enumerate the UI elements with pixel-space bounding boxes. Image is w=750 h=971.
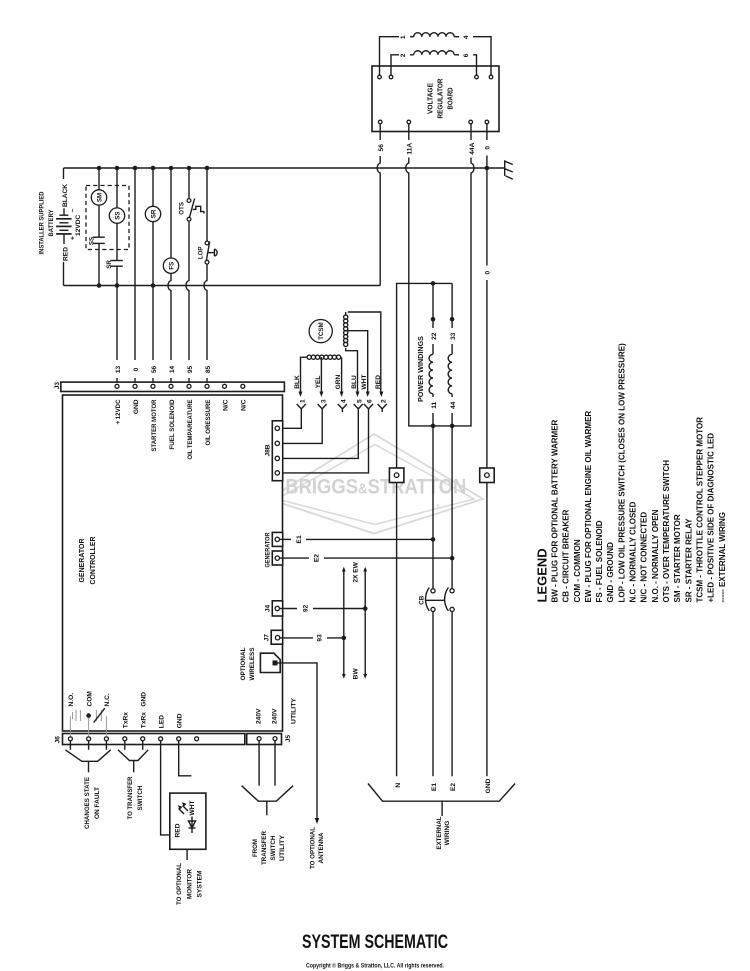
- svg-text:+: +: [69, 236, 76, 240]
- svg-text:OTS - OVER TEMPERATURE SWITCH: OTS - OVER TEMPERATURE SWITCH: [662, 460, 671, 603]
- svg-text:RED: RED: [175, 823, 182, 837]
- wire GND (x=135): [134, 168, 136, 360]
- J8B connector: [272, 421, 282, 481]
- TCSM throttle control stepper motor circle: [309, 320, 332, 343]
- svg-text:BW - PLUG FOR OPTIONAL BATTERY: BW - PLUG FOR OPTIONAL BATTERY WARMER: [551, 419, 560, 602]
- wire OTS (x=189): [188, 168, 190, 199]
- junction dots on top bus: [97, 166, 102, 171]
- LED symbol: [179, 806, 196, 834]
- svg-text:UTILITY: UTILITY: [279, 834, 286, 861]
- svg-text:BLU: BLU: [351, 375, 358, 389]
- svg-text:TRANSFER: TRANSFER: [261, 831, 268, 865]
- svg-text:56: 56: [378, 144, 385, 152]
- svg-text:EXTERNAL: EXTERNAL: [436, 817, 443, 850]
- E1 wire: [280, 538, 292, 540]
- svg-text:WHT: WHT: [189, 800, 196, 815]
- svg-text:Copyright © Briggs & Stratton,: Copyright © Briggs & Stratton, LLC. All …: [306, 962, 444, 970]
- svg-text:240V: 240V: [256, 708, 263, 724]
- battery bracket top: [63, 168, 65, 179]
- svg-text:BW: BW: [353, 668, 360, 680]
- svg-text:RED: RED: [62, 247, 69, 261]
- svg-text:6: 6: [367, 399, 374, 403]
- svg-text:SYSTEM: SYSTEM: [196, 870, 203, 897]
- svg-text:N.C.: N.C.: [104, 693, 111, 706]
- svg-text:FROM: FROM: [252, 839, 259, 857]
- svg-text:E2: E2: [450, 783, 457, 791]
- svg-text:GND: GND: [485, 778, 492, 793]
- svg-text:3: 3: [320, 399, 327, 403]
- svg-text:WIRELESS: WIRELESS: [249, 647, 256, 681]
- horizontal coil (BLK-YEL-GRN): [301, 355, 342, 394]
- svg-text:E1: E1: [296, 535, 303, 543]
- wires from chevrons to J8B: [280, 409, 301, 429]
- svg-text:WHT: WHT: [361, 374, 368, 389]
- svg-text:SWITCH: SWITCH: [137, 785, 144, 810]
- SS circle: [109, 208, 124, 223]
- svg-text:N: N: [395, 783, 402, 788]
- svg-text:BLK: BLK: [294, 375, 301, 389]
- svg-text:VOLTAGE: VOLTAGE: [427, 83, 434, 114]
- voltage regulator board box: [372, 66, 499, 132]
- svg-text:®: ®: [436, 503, 440, 510]
- svg-text:N/C: N/C: [241, 399, 248, 411]
- svg-text:SR: SR: [106, 260, 113, 269]
- svg-text:BOARD: BOARD: [447, 88, 454, 110]
- controller box: [63, 395, 283, 731]
- svg-text:----- EXTERNAL WIRING: ----- EXTERNAL WIRING: [718, 512, 727, 603]
- svg-text:N.C - NORMALLY CLOSED: N.C - NORMALLY CLOSED: [629, 501, 638, 602]
- svg-text:MONITOR: MONITOR: [186, 869, 193, 899]
- N line: [397, 283, 453, 776]
- svg-text:12VDC: 12VDC: [75, 214, 82, 235]
- svg-text:0: 0: [485, 146, 492, 150]
- svg-text:240V: 240V: [272, 708, 279, 724]
- svg-text:+LED - POSITIVE SIDE OF DIAGNO: +LED - POSITIVE SIDE OF DIAGNOSTIC LED: [707, 433, 716, 603]
- J5 connector strip: [247, 734, 282, 745]
- svg-text:CB - CIRCUIT BREAKER: CB - CIRCUIT BREAKER: [562, 509, 571, 602]
- svg-text:SWITCH: SWITCH: [270, 835, 277, 860]
- junction dots on bottom bus: [97, 283, 102, 288]
- SR contact: [111, 260, 123, 262]
- 92 wire: [280, 608, 298, 610]
- svg-text:LOP - LOW OIL PRESSURE SWITCH: LOP - LOW OIL PRESSURE SWITCH (CLOSES ON…: [617, 343, 626, 603]
- svg-text:LED: LED: [158, 715, 165, 728]
- svg-text:GENERATOR: GENERATOR: [265, 532, 272, 567]
- svg-text:14: 14: [169, 366, 176, 374]
- svg-text:GND: GND: [133, 399, 140, 414]
- svg-text:YEL: YEL: [315, 376, 322, 389]
- winding bottom junction dots: [431, 424, 436, 429]
- wire FS (x=171): [170, 168, 172, 258]
- OPTIONAL WIRELESS module: [260, 653, 280, 672]
- svg-text:1: 1: [400, 35, 407, 39]
- E1/E2 branch wires down: [432, 426, 434, 589]
- svg-text:TO OPTIONAL: TO OPTIONAL: [176, 863, 183, 905]
- svg-text:ANTENNA: ANTENNA: [318, 832, 325, 863]
- dashed box (SS start circuit): [86, 186, 129, 250]
- svg-text:OIL ORESSURE: OIL ORESSURE: [205, 399, 212, 446]
- svg-text:0: 0: [485, 270, 492, 274]
- svg-text:4: 4: [341, 399, 348, 403]
- terminal square on 0 wire: [480, 468, 495, 483]
- funnel changes state on fault: [69, 741, 71, 750]
- wire LOP (x=207): [206, 168, 208, 241]
- winding A (11-22): [432, 283, 434, 328]
- wires from bus down to J3 with number gaps: [116, 286, 118, 361]
- svg-text:J8B: J8B: [265, 444, 272, 456]
- terminal square on N wire: [389, 468, 404, 483]
- svg-text:E2: E2: [314, 554, 321, 562]
- J3 connector strip: [61, 382, 285, 391]
- svg-text:+ 12VDC: + 12VDC: [115, 399, 122, 424]
- svg-text:93: 93: [317, 634, 324, 642]
- svg-text:SS: SS: [114, 211, 121, 219]
- funnel to transfer switch: [124, 741, 126, 750]
- svg-text:COM: COM: [86, 691, 93, 707]
- svg-text:ON FAULT: ON FAULT: [94, 787, 101, 819]
- svg-text:TxRx: TxRx: [123, 712, 130, 728]
- svg-text:N/C: N/C: [222, 399, 229, 411]
- svg-text:WIRING: WIRING: [444, 821, 451, 846]
- relay contact symbols: [70, 710, 106, 737]
- svg-text:4: 4: [463, 35, 470, 39]
- top bus: [64, 167, 505, 169]
- svg-text:N.O. - NORMALLY OPEN: N.O. - NORMALLY OPEN: [651, 509, 660, 602]
- SM circle: [91, 190, 106, 205]
- svg-text:CHANGES STATE: CHANGES STATE: [84, 776, 91, 829]
- svg-text:J4: J4: [265, 605, 272, 613]
- svg-text:CB: CB: [419, 595, 426, 604]
- svg-text:TCSM: TCSM: [318, 322, 325, 340]
- svg-text:GND - GROUND: GND - GROUND: [606, 542, 615, 603]
- bottom pins: [378, 120, 382, 124]
- svg-text:J6: J6: [55, 736, 62, 744]
- svg-text:LOP: LOP: [198, 246, 205, 259]
- svg-text:TxRx GND: TxRx GND: [141, 692, 148, 729]
- J4 connector: [272, 601, 282, 616]
- svg-text:SS: SS: [89, 237, 96, 245]
- svg-text:BRIGGS&STRATTON: BRIGGS&STRATTON: [285, 476, 466, 499]
- FS circle: [163, 258, 178, 273]
- inner winding loop 2-6: [391, 55, 399, 75]
- svg-text:POWER WINDINGS: POWER WINDINGS: [418, 336, 425, 402]
- battery bracket bottom: [63, 262, 65, 286]
- svg-text:FS: FS: [168, 262, 175, 270]
- svg-text:J3: J3: [54, 382, 61, 390]
- svg-text:J5: J5: [285, 735, 292, 743]
- svg-text:44: 44: [450, 401, 457, 409]
- svg-text:OTS: OTS: [178, 202, 185, 215]
- svg-text:OIL TEMPAREATURE: OIL TEMPAREATURE: [187, 399, 194, 460]
- wire 0: [486, 124, 488, 140]
- svg-text:SYSTEM SCHEMATIC: SYSTEM SCHEMATIC: [302, 931, 448, 953]
- svg-text:E1: E1: [431, 783, 438, 791]
- svg-text:GENERATOR: GENERATOR: [77, 538, 86, 582]
- LOP switch: [205, 241, 209, 245]
- svg-text:UTILITY: UTILITY: [290, 697, 297, 724]
- svg-text:85: 85: [205, 366, 212, 374]
- svg-text:0: 0: [133, 367, 140, 371]
- svg-text:TO OPTIONAL: TO OPTIONAL: [310, 827, 317, 869]
- GENERATOR connector E1/E2: [272, 532, 282, 546]
- J7 connector: [271, 630, 283, 644]
- circuit breaker CB: [431, 589, 435, 593]
- J5 wires + funnel: [258, 741, 260, 786]
- LED wire and box: [161, 741, 170, 835]
- svg-text:GND: GND: [177, 713, 184, 728]
- svg-text:2: 2: [400, 53, 407, 57]
- svg-text:SM - STARTER MOTOR: SM - STARTER MOTOR: [673, 514, 682, 602]
- wire SM (x=99): [98, 168, 100, 190]
- svg-text:2: 2: [380, 399, 387, 403]
- J6 connector strip: [63, 734, 245, 745]
- stubs to J3 pins: [116, 378, 118, 384]
- svg-text:TO TRANSFER: TO TRANSFER: [127, 776, 134, 819]
- svg-text:BATTERY: BATTERY: [48, 209, 55, 237]
- svg-text:11A: 11A: [407, 143, 414, 155]
- EW/BW dimension lines: [344, 570, 365, 676]
- svg-text:CONTROLLER: CONTROLLER: [88, 536, 97, 584]
- 93 wire: [280, 637, 313, 639]
- svg-text:N.O.: N.O.: [68, 693, 75, 707]
- svg-text:TCSM - THROTTLE CONTROL STEPPE: TCSM - THROTTLE CONTROL STEPPER MOTOR: [696, 417, 705, 603]
- svg-text:OPTIONAL: OPTIONAL: [240, 648, 247, 681]
- svg-text:LEGEND: LEGEND: [535, 548, 550, 602]
- svg-text:COM - COMMON: COM - COMMON: [573, 539, 582, 602]
- svg-text:INSTALLER SUPPLIED: INSTALLER SUPPLIED: [39, 191, 46, 254]
- svg-text:J7: J7: [264, 634, 271, 642]
- battery 12VDC: [56, 208, 76, 244]
- wire 56 from regulator: [379, 124, 381, 140]
- svg-text:6: 6: [463, 53, 470, 57]
- outer winding loop 1-4: [380, 37, 400, 75]
- svg-text:FS - FUEL SOLENOID: FS - FUEL SOLENOID: [595, 520, 604, 602]
- svg-text:11: 11: [431, 401, 438, 408]
- arrowheads + plug chevrons 1,3,4,5,6,2: [299, 392, 384, 398]
- svg-text:2X EW: 2X EW: [352, 561, 359, 582]
- svg-text:RED: RED: [375, 375, 382, 389]
- svg-text:N/C - NOT CONNECTED: N/C - NOT CONNECTED: [640, 512, 649, 603]
- svg-text:5: 5: [357, 399, 364, 403]
- svg-text:22: 22: [431, 332, 438, 340]
- svg-text:1: 1: [300, 399, 307, 403]
- svg-text:44A: 44A: [469, 142, 476, 154]
- svg-text:–: –: [69, 208, 76, 212]
- E2 wire: [280, 557, 310, 559]
- svg-text:56: 56: [151, 366, 158, 374]
- svg-text:SM: SM: [96, 193, 103, 202]
- ground: [505, 160, 513, 179]
- svg-text:FUEL SOLENOID: FUEL SOLENOID: [169, 399, 176, 449]
- wire SR circle (x=153): [152, 168, 154, 206]
- watermark Briggs & Stratton logo: [269, 434, 484, 534]
- svg-text:92: 92: [303, 605, 310, 613]
- antenna wire: [278, 663, 318, 818]
- svg-text:95: 95: [187, 366, 194, 374]
- wire SS (x=117): [116, 168, 118, 208]
- svg-text:GRN: GRN: [335, 374, 342, 389]
- svg-text:SR - STARTER RELAY: SR - STARTER RELAY: [684, 518, 693, 603]
- svg-text:13: 13: [115, 366, 122, 374]
- SR circle: [145, 206, 160, 221]
- svg-text:EW - PLUG FOR OPTIONAL ENGINE: EW - PLUG FOR OPTIONAL ENGINE OIL WARMER: [584, 411, 593, 603]
- wire 11A: [408, 124, 410, 140]
- winding B (44-33): [451, 283, 453, 328]
- svg-text:BLACK: BLACK: [62, 184, 69, 207]
- bottom bus (56 run): [64, 285, 381, 287]
- OTS switch: [187, 199, 191, 203]
- top pins: [378, 75, 382, 79]
- svg-text:33: 33: [450, 332, 457, 340]
- svg-text:STARTER MOTOR: STARTER MOTOR: [151, 399, 158, 451]
- SS contact: [93, 236, 105, 238]
- svg-text:REGULATOR: REGULATOR: [437, 79, 444, 119]
- vertical coil (RED-WHT-BLU): [344, 312, 381, 395]
- svg-text:SR: SR: [150, 209, 157, 218]
